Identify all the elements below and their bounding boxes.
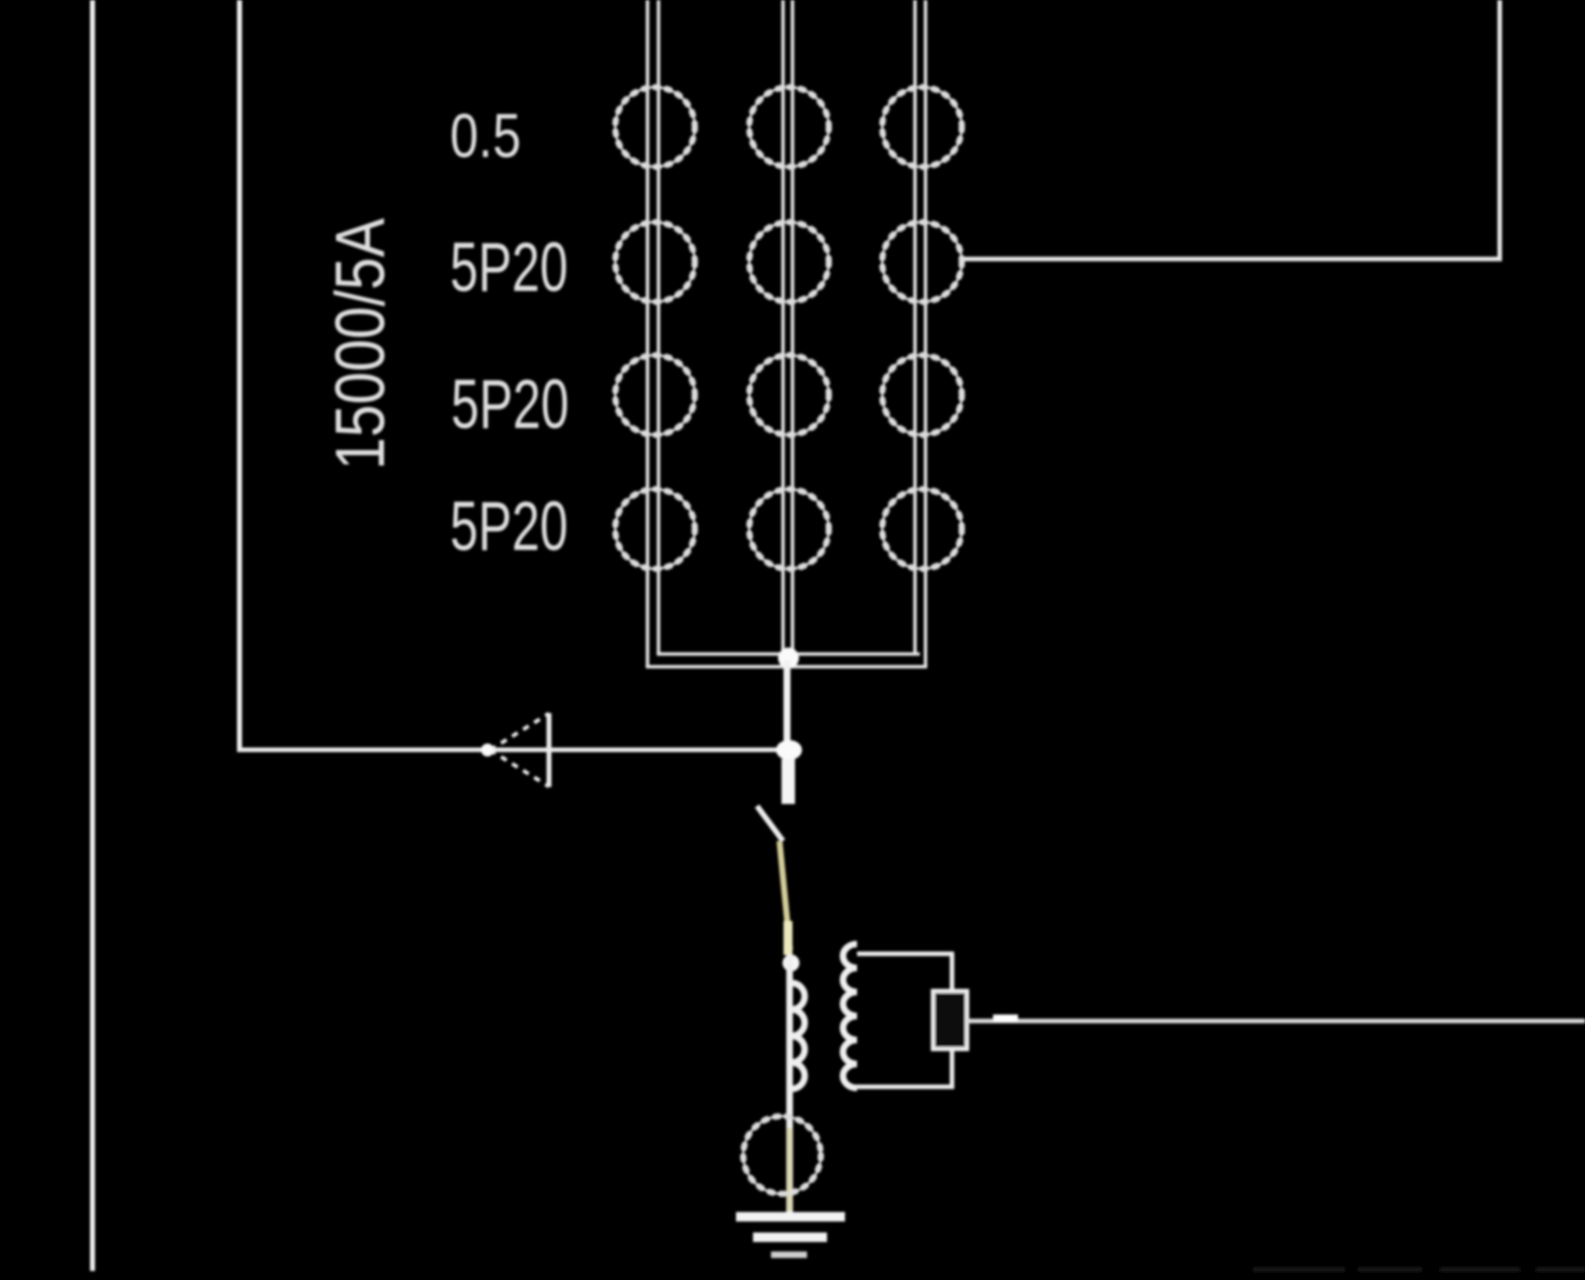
junction blob below fuse <box>783 955 800 972</box>
CT winding circle row1 col3 <box>882 87 962 167</box>
faint border remnant bottom right <box>1253 1267 1585 1272</box>
phase A conductor (double vertical line) <box>646 0 660 667</box>
disconnect switch blade (white diagonal) <box>757 806 783 841</box>
fuse link (yellow slanted segment) <box>780 841 793 955</box>
svg-text:5P20: 5P20 <box>450 487 568 565</box>
burden resistor box <box>933 991 967 1049</box>
label 5P20 row3 <box>451 365 569 443</box>
svg-text:5P20: 5P20 <box>451 365 569 443</box>
primary winding arcs (right side of conductor) <box>793 983 805 1089</box>
label 5P20 row4 <box>450 487 568 565</box>
label 15000/5A rotated vertical <box>321 218 399 470</box>
wire: star point down to tap junction <box>784 660 791 746</box>
bus bottom tie outer horizontal <box>646 665 927 668</box>
wire: below burden box <box>950 1049 955 1089</box>
CT winding circle row2 col3 <box>882 222 962 302</box>
svg-text:5P20: 5P20 <box>450 228 568 306</box>
wire: CT secondary output to top right with corner <box>963 0 1502 261</box>
phase B conductor (double vertical line) <box>781 0 794 656</box>
CT winding circle row1 col2 <box>749 87 829 167</box>
svg-text:0.5: 0.5 <box>450 102 521 171</box>
wire: long output line to right edge <box>967 1015 1585 1024</box>
wire: right vertical into burden box <box>950 953 955 991</box>
arrow symbol (hollow triangle pointing left on tap line) <box>481 713 549 787</box>
wire: thick stub below junction (switch upper terminal) <box>782 759 796 804</box>
CT winding circle row3 col3 <box>882 355 962 435</box>
CT winding circle row4 col3 <box>882 489 962 569</box>
CT winding circle row1 col1 (0.5 class) <box>615 87 695 167</box>
ground symbol <box>736 1212 845 1258</box>
svg-text:15000/5A: 15000/5A <box>321 218 399 470</box>
CT winding circle row2 col2 <box>749 222 829 302</box>
secondary winding arcs (bulging left) <box>843 944 857 1088</box>
wire: secondary bottom connection <box>855 1085 954 1090</box>
earthing CT circle at bottom <box>743 1116 821 1194</box>
wire: secondary top connection <box>857 952 954 957</box>
CT winding circle row4 col1 (5P20) <box>615 489 695 569</box>
CT winding circle row2 col1 (5P20) <box>615 222 695 302</box>
primary conductor down to earth <box>786 955 793 1213</box>
wire: horizontal tap line to junction <box>237 748 789 753</box>
wire: left frame vertical line <box>90 0 95 1271</box>
phase C conductor (double vertical line) <box>913 0 927 667</box>
label 0.5 <box>450 102 521 171</box>
junction dot at star point <box>778 648 799 669</box>
CT winding circle row3 col1 (5P20) <box>615 355 695 435</box>
bus bottom tie inner horizontal <box>657 652 920 655</box>
junction dot at tap line <box>776 740 802 760</box>
wire: vertical line from top edge down to arrow tap <box>237 0 242 750</box>
CT winding circle row4 col2 <box>749 489 829 569</box>
label 5P20 row2 <box>450 228 568 306</box>
CT winding circle row3 col2 <box>749 355 829 435</box>
